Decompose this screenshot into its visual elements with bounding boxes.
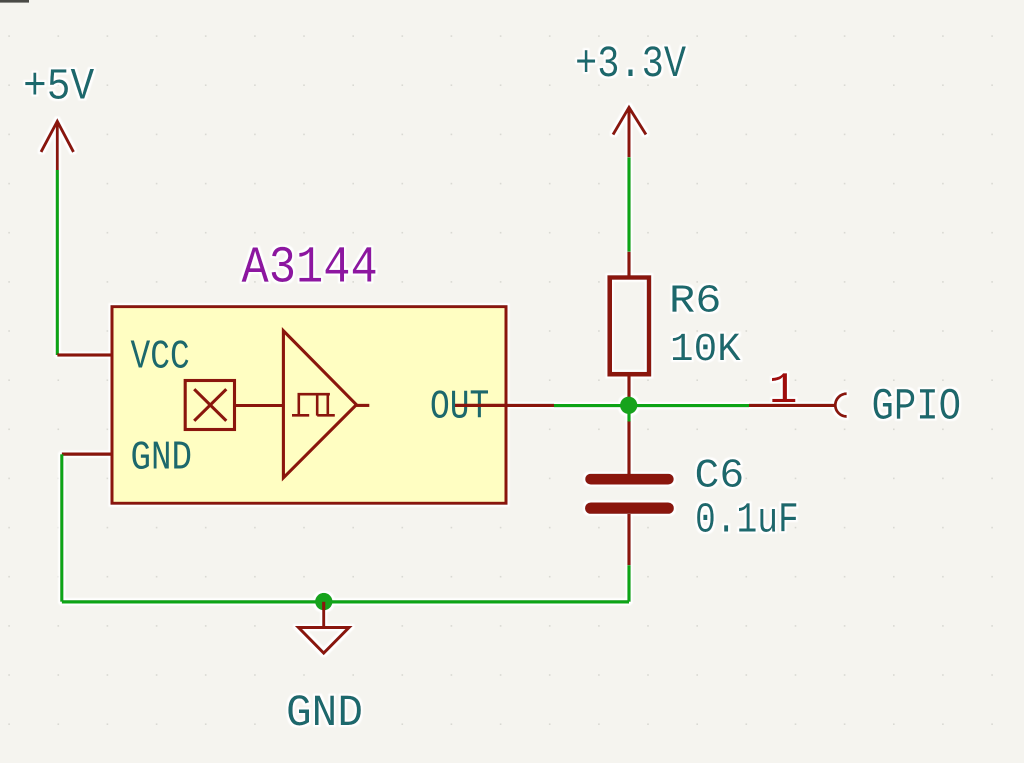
C6 top plate [585,474,674,485]
svg-text:GPIO: GPIO [872,383,962,433]
C6 top pin [627,421,630,474]
C6 bottom pin [627,514,630,565]
svg-text:R6: R6 [669,278,721,324]
capacitor C6 [585,404,799,565]
A3144 body box [112,307,506,504]
wire C6 to bottom rail (vertical) [627,565,630,602]
ground symbol [286,602,363,740]
R6 bottom pin [627,376,630,399]
wire +3.3V to R6 (vertical) [627,157,630,252]
amplifier output tick [356,404,369,407]
pin GND [62,453,112,456]
svg-text:0.1uF: 0.1uF [695,496,799,544]
svg-text:VCC: VCC [131,334,190,380]
GND triangle [299,628,350,654]
hall element X diagonal 1 [194,389,226,421]
svg-text:GND: GND [131,436,192,482]
link square to amplifier [235,404,284,407]
svg-text:GND: GND [286,688,363,739]
R6 body [610,278,649,375]
+5V stem [56,121,59,170]
resistor R6 [610,252,741,398]
wire OUT to junction (green) [554,404,749,407]
wire bottom rail (horizontal) [62,600,629,603]
green stub below junction [627,404,630,422]
connector J - GPIO [749,366,961,432]
+3.3V stem [628,107,631,157]
pin OUT [455,404,554,407]
pin VCC [57,353,112,356]
svg-text:1: 1 [769,366,798,415]
svg-text:A3144: A3144 [242,238,378,298]
svg-text:C6: C6 [695,454,745,500]
GND stem [322,602,325,628]
svg-text:OUT: OUT [430,384,489,430]
wire +5V to VCC (vertical) [56,170,59,355]
C6 bottom plate [585,503,674,514]
svg-text:+3.3V: +3.3V [575,40,687,90]
hall element square [185,381,234,430]
GPIO connector arc [835,394,846,417]
power symbol +5V [41,121,74,170]
GPIO pin 1 line [749,404,835,407]
svg-text:10K: 10K [670,327,741,372]
sheet border fragment top-left [0,0,29,3]
R6 top pin [627,252,630,276]
hall element X diagonal 2 [194,389,226,421]
+3.3V arrowhead [613,107,646,134]
wire GND pin down (vertical) [60,454,63,602]
svg-text:+5V: +5V [23,62,94,113]
amplifier triangle [283,331,356,478]
component U - A3144 hall sensor [57,238,554,503]
junction at R6/OUT/C6 [620,397,637,414]
schmitt trigger glyph [292,394,335,415]
+5V arrowhead [41,121,74,152]
power symbol +3.3V [613,107,646,157]
junction at GND rail [315,593,332,610]
